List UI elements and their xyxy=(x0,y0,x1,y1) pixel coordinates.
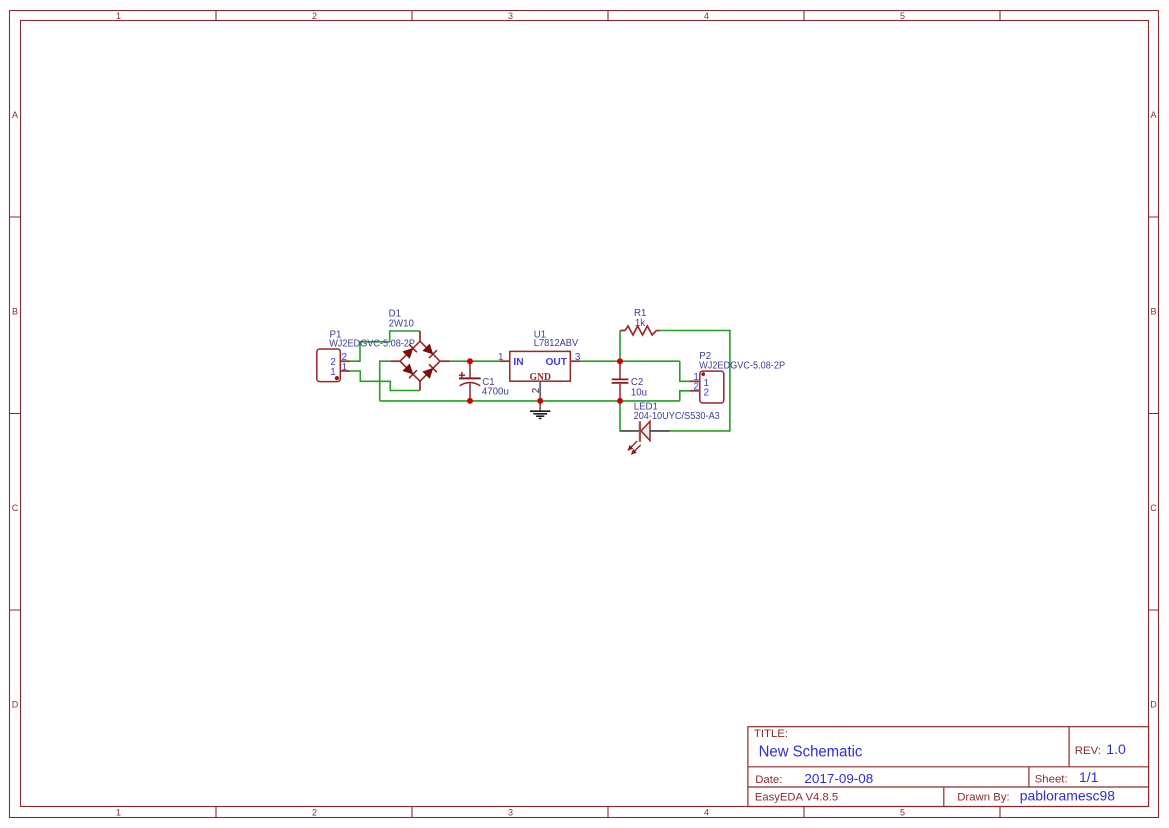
C1 bottom lead xyxy=(469,383,471,401)
junction dot GND/U1 pin2 xyxy=(537,398,543,404)
C2 bottom plate xyxy=(612,382,629,384)
svg-text:1.0: 1.0 xyxy=(1106,741,1126,757)
LED1 emission arrow 2 xyxy=(632,445,641,454)
svg-text:Date:: Date: xyxy=(755,774,782,786)
wire P1 pin1 to D1 bottom (net AC2) xyxy=(350,371,420,391)
svg-text:OUT: OUT xyxy=(545,357,567,368)
P1 pin2 stub xyxy=(340,360,350,362)
P2 pin2 stub xyxy=(690,390,700,392)
capacitor C2 xyxy=(612,361,629,401)
bridge rectifier D1 xyxy=(390,331,449,391)
title block row divider 2 xyxy=(748,786,1149,788)
title block row divider 1 xyxy=(748,766,1149,768)
ground stem xyxy=(539,401,541,411)
U1 pin2 stub (gray) xyxy=(539,381,541,401)
D1 diode bottom-right arrow xyxy=(422,364,437,379)
connector P2 xyxy=(690,371,724,403)
svg-text:New Schematic: New Schematic xyxy=(759,743,863,760)
junction dot VIN/C1 top xyxy=(467,358,473,364)
svg-text:1: 1 xyxy=(330,367,336,378)
junction dot +12V/C2 top xyxy=(617,358,623,364)
frame row ticks left xyxy=(10,217,21,610)
svg-text:IN: IN xyxy=(513,357,523,368)
svg-text:B: B xyxy=(1150,307,1156,317)
svg-text:D: D xyxy=(12,700,19,710)
wire P1 pin2 to D1 top (net AC1) xyxy=(350,331,420,361)
wire U1 OUT rail (net +12V) xyxy=(580,360,680,362)
svg-text:1: 1 xyxy=(116,11,121,21)
frame column ticks bottom xyxy=(216,807,1000,818)
D1 right pin stub xyxy=(440,360,450,362)
svg-text:4: 4 xyxy=(704,807,709,817)
svg-text:3: 3 xyxy=(508,807,513,817)
LED1 emission arrow 1 xyxy=(628,441,637,450)
wire R1 right to LED right leg xyxy=(660,331,730,431)
title block REV cell divider xyxy=(1068,727,1070,767)
connector P1 xyxy=(317,349,350,382)
P1 pin1 stub xyxy=(340,370,350,372)
row letters right xyxy=(1150,110,1157,710)
ground bar 4 xyxy=(539,417,542,419)
svg-text:3: 3 xyxy=(575,352,581,363)
svg-text:1: 1 xyxy=(498,352,504,363)
D1 diamond body xyxy=(400,341,440,381)
frame column ticks top xyxy=(216,11,1000,21)
svg-text:Drawn By:: Drawn By: xyxy=(957,792,1010,804)
LED1 cathode bar xyxy=(639,421,641,442)
svg-text:2: 2 xyxy=(312,807,317,817)
U1 pin3 stub xyxy=(570,360,580,362)
wire D1 left to bottom rail (net GND left) xyxy=(380,361,391,401)
C1 curved bottom plate xyxy=(460,383,481,386)
row letters left xyxy=(12,110,19,710)
svg-text:2017-09-08: 2017-09-08 xyxy=(804,771,873,786)
svg-text:204-10UYC/S530-A3: 204-10UYC/S530-A3 xyxy=(634,411,720,422)
svg-text:pabloramesc98: pabloramesc98 xyxy=(1020,788,1115,804)
svg-text:B: B xyxy=(12,307,18,317)
title block Sheet cell divider xyxy=(1028,767,1030,787)
svg-text:GND: GND xyxy=(529,371,551,383)
regulator U1 xyxy=(500,351,581,401)
svg-text:4: 4 xyxy=(704,11,709,21)
ground bar 3 xyxy=(536,415,544,417)
svg-text:2: 2 xyxy=(531,387,542,393)
LED1 xyxy=(621,421,670,454)
wire C2 bottom to LED left xyxy=(620,401,622,431)
svg-text:1/1: 1/1 xyxy=(1079,769,1099,785)
svg-text:REV:: REV: xyxy=(1075,745,1101,757)
svg-text:2: 2 xyxy=(693,381,699,392)
title block outline xyxy=(748,727,1149,807)
svg-text:EasyEDA V4.8.5: EasyEDA V4.8.5 xyxy=(755,792,838,804)
svg-text:2: 2 xyxy=(312,11,317,21)
C1 plus sign xyxy=(459,372,465,378)
svg-text:WJ2EDGVC-5.08-2P: WJ2EDGVC-5.08-2P xyxy=(329,338,415,349)
C2 top lead xyxy=(619,361,621,379)
ground bar 1 xyxy=(530,410,550,412)
junction dot GND/C1 bottom xyxy=(467,398,473,404)
title block DrawnBy cell divider xyxy=(943,787,945,807)
svg-text:2: 2 xyxy=(704,388,710,399)
LED1 triangle xyxy=(641,421,650,440)
svg-text:10u: 10u xyxy=(631,388,647,399)
svg-text:1: 1 xyxy=(342,362,348,373)
ground symbol xyxy=(530,401,550,419)
D1 top pin stub xyxy=(419,331,421,341)
svg-text:C: C xyxy=(12,503,19,513)
C2 top plate xyxy=(612,378,629,380)
svg-text:5: 5 xyxy=(900,807,905,817)
U1 pin1 stub xyxy=(500,360,510,362)
wire D1 right to U1 IN (net VIN) xyxy=(450,360,500,362)
P1 pin1 marker dot xyxy=(335,376,339,380)
frame row ticks right xyxy=(1149,217,1159,610)
D1 bottom pin stub xyxy=(419,381,421,390)
svg-text:2W10: 2W10 xyxy=(389,318,415,329)
LED1 right pin (black) xyxy=(650,430,670,432)
C1 top plate xyxy=(459,377,481,379)
svg-text:C2: C2 xyxy=(631,377,643,388)
svg-text:1: 1 xyxy=(116,807,121,817)
junction dot GND/C2 bottom xyxy=(617,398,623,404)
resistor R1 xyxy=(620,326,660,335)
wire R1 left leg xyxy=(619,331,621,362)
LED1 left pin (black) xyxy=(621,430,640,432)
svg-text:5: 5 xyxy=(900,11,905,21)
svg-text:A: A xyxy=(1150,110,1156,120)
P2 pin1 marker dot xyxy=(701,372,705,376)
capacitor C1 (polarized) xyxy=(459,361,481,401)
R1 zigzag body xyxy=(625,326,657,335)
wire +12V down to P2 pin1 xyxy=(680,361,690,381)
P2 pin1 stub xyxy=(690,380,700,382)
R1 right lead xyxy=(657,330,661,332)
R1 left lead xyxy=(620,330,625,332)
svg-text:3: 3 xyxy=(508,11,513,21)
column numbers top xyxy=(116,11,905,21)
C1 top lead xyxy=(469,361,471,378)
svg-text:D: D xyxy=(1150,700,1157,710)
svg-text:C: C xyxy=(1150,503,1157,513)
svg-text:Sheet:: Sheet: xyxy=(1035,773,1068,785)
ground bar 2 xyxy=(533,413,547,415)
svg-text:A: A xyxy=(12,110,18,120)
D1 diode bottom-left arrow xyxy=(402,363,417,378)
column numbers bottom xyxy=(116,807,905,817)
D1 diode top-left arrow xyxy=(402,344,417,359)
D1 left pin stub xyxy=(390,360,400,362)
svg-text:WJ2EDGVC-5.08-2P: WJ2EDGVC-5.08-2P xyxy=(699,361,785,372)
svg-text:L7812ABV: L7812ABV xyxy=(534,338,579,349)
wire GND up to P2 pin2 xyxy=(680,391,690,401)
svg-text:TITLE:: TITLE: xyxy=(754,728,788,740)
wire bottom rail (net GND) xyxy=(380,400,680,402)
D1 diode top-right arrow xyxy=(422,343,437,358)
svg-text:4700u: 4700u xyxy=(482,386,509,397)
C2 bottom lead xyxy=(619,383,621,401)
svg-text:1k: 1k xyxy=(635,318,645,329)
